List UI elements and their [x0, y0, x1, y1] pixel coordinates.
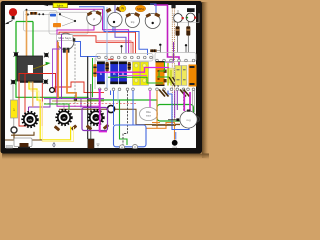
resistor orange vert	[93, 64, 96, 77]
wire green box right	[157, 105, 194, 122]
node t5	[60, 15, 76, 26]
wire arrow to lamp	[5, 21, 13, 25]
wire red mid top	[72, 36, 133, 54]
wire magenta blocks row	[96, 68, 169, 73]
wire blue to dot	[175, 132, 177, 140]
gauge G3	[125, 12, 140, 27]
pin marks	[120, 44, 187, 54]
svg-text:HN: HN	[28, 118, 32, 122]
lamp pilot small	[11, 127, 17, 133]
switch block yellow2	[140, 62, 148, 85]
gray stub plate	[6, 146, 13, 149]
frame re-draw bottom edge	[5, 149, 196, 154]
wire brown low1	[11, 132, 34, 136]
shadow right	[202, 2, 209, 158]
terminals row1	[98, 56, 195, 62]
wire blue mike	[75, 42, 99, 57]
wire red stub	[108, 58, 114, 60]
wire orange mike right	[67, 50, 76, 101]
wire pale yellow stairs	[31, 82, 74, 142]
svg-text:lights: lights	[57, 4, 64, 8]
switch block orange mid	[156, 61, 165, 86]
svg-text:Mike Says: Mike Says	[58, 36, 71, 40]
node ring mid	[107, 105, 114, 112]
svg-text:1: 1	[13, 108, 15, 112]
resistor inline mid	[150, 49, 160, 52]
wire magenta thick mid	[100, 89, 107, 132]
wire magenta gauge down	[57, 26, 100, 107]
wire green blocks	[108, 77, 163, 83]
wire pale blue tall	[106, 7, 108, 89]
capacitor right B	[186, 22, 190, 53]
wire orange mike left	[57, 42, 59, 99]
wire orange under box	[32, 82, 34, 108]
wire olive mid	[52, 100, 104, 102]
node ring left	[50, 88, 55, 93]
wire purple right v1	[174, 91, 176, 119]
wire green main low	[16, 82, 157, 105]
switch block blue2	[110, 62, 118, 85]
lamp small B	[186, 8, 196, 22]
yellow label LT	[53, 3, 68, 8]
desk background	[0, 0, 211, 162]
lamp small A	[174, 10, 184, 22]
wire black tall	[87, 57, 89, 140]
mike says dial	[57, 33, 76, 53]
wire green left loop	[16, 22, 33, 83]
wire green under blocks	[120, 100, 128, 145]
wire gray reg	[193, 91, 195, 113]
junction X3	[11, 80, 16, 85]
node top of orange	[26, 9, 28, 11]
wire blue under blocks	[111, 91, 134, 126]
node t2	[38, 13, 40, 15]
switch block yellow3	[175, 66, 181, 86]
wire magenta block drop	[141, 68, 143, 81]
wire yellow stairs	[29, 82, 71, 140]
mike says ellipse	[140, 107, 158, 120]
wire purple mike	[53, 49, 61, 87]
svg-text:MPH: MPH	[137, 7, 144, 11]
terminal B+	[168, 118, 179, 121]
purple horn link	[28, 107, 30, 111]
wire orange into box	[26, 10, 28, 56]
wire dark tall2	[90, 84, 92, 139]
fuse holder bottom	[88, 139, 100, 150]
switch block yellow4	[182, 66, 187, 86]
connector box A outline	[24, 11, 58, 32]
connector strip left	[96, 54, 153, 62]
wire red top long	[59, 32, 136, 53]
condenser drop	[53, 143, 55, 147]
fuse F1	[11, 84, 18, 127]
wire brown low2	[5, 133, 42, 140]
junction X4	[43, 79, 48, 84]
regulator box (dark)	[17, 56, 43, 81]
switch block yellow small	[169, 68, 175, 83]
wire purple left net	[29, 34, 105, 108]
ground dot right	[172, 140, 178, 149]
diagonal contacts B	[159, 90, 190, 97]
resistor R1	[30, 12, 37, 15]
wire purple right drop	[161, 42, 174, 66]
shadow bottom	[2, 154, 209, 161]
blue box bottom	[114, 125, 147, 147]
wire red dashed mid	[44, 103, 136, 105]
junction box bottom left	[14, 138, 32, 148]
twisted pair source	[171, 5, 175, 8]
switch block blue3	[119, 62, 127, 85]
diagonal contacts A	[169, 77, 179, 87]
wire gray bus in box A	[25, 14, 50, 16]
switch block orange right	[189, 65, 197, 87]
wire magenta over bulb	[99, 89, 101, 132]
badge W yellow	[119, 5, 126, 12]
node t4	[59, 13, 61, 15]
wire magenta to dial	[149, 91, 151, 109]
battery terminal c1	[120, 145, 125, 150]
wire gray dashed mid	[74, 44, 76, 107]
svg-text:trip: trip	[131, 20, 135, 24]
wire magenta right tall	[154, 5, 179, 66]
wire violet tall	[115, 5, 126, 54]
wire orange right net	[146, 91, 175, 140]
gauge G1	[87, 10, 102, 25]
resistor brown v2	[128, 62, 131, 70]
node top-left arrow	[44, 4, 54, 6]
lamp red pilot	[9, 8, 17, 19]
connector box B outline	[49, 12, 88, 34]
switch block yellow1	[133, 62, 140, 85]
wire dashed gray right	[183, 91, 185, 111]
photo black frame	[1, 1, 203, 154]
terminals row2	[98, 88, 194, 91]
wire magenta label run	[59, 8, 129, 54]
wire ltblue under blocks	[117, 91, 119, 104]
wire twisted pair	[172, 8, 180, 124]
wire pink mid	[96, 41, 131, 54]
bulb left	[54, 103, 78, 131]
horn	[22, 112, 37, 127]
capacitor C1	[53, 23, 61, 27]
wire dark under blocks	[123, 91, 128, 146]
svg-text:pf: pf	[93, 17, 95, 21]
capacitor right A	[176, 22, 180, 52]
wire gray vert	[94, 58, 96, 89]
purple box around bulb	[82, 108, 108, 131]
green arrow	[46, 62, 51, 65]
badge MPH orange	[135, 5, 145, 12]
connector strip right	[155, 53, 196, 62]
wire brown ring run	[59, 109, 180, 124]
white paper	[5, 5, 196, 148]
wire red staircase	[55, 82, 104, 93]
wire yellowgreen v1	[167, 63, 169, 86]
svg-text:says: says	[146, 115, 152, 118]
node t3	[42, 13, 44, 15]
resistor brown v1	[105, 62, 108, 71]
contact squares right of orange	[164, 70, 167, 83]
wire brown right low	[152, 124, 176, 126]
gauge G4	[145, 12, 160, 28]
wire green to bulb	[44, 104, 69, 110]
junction X2	[44, 53, 49, 58]
svg-text:reg: reg	[186, 118, 190, 122]
diode D1	[50, 14, 56, 17]
regulator circle	[180, 110, 200, 129]
bar under box	[20, 81, 43, 83]
wire green right steps	[157, 62, 169, 78]
wire green vert mid	[92, 58, 94, 97]
wire blue right net	[168, 91, 189, 130]
battery terminal c2	[133, 145, 138, 150]
box around small lamps	[173, 13, 199, 22]
gauge G2	[106, 7, 123, 27]
node t1	[27, 13, 29, 15]
wire blue top	[79, 4, 156, 55]
wire olive to arrow	[33, 64, 48, 69]
wire yellowgreen v2	[170, 70, 172, 86]
switch block blue1	[97, 62, 105, 85]
terminal square	[74, 98, 77, 101]
wire pink blocks row	[118, 75, 147, 77]
wire purple right v2	[176, 91, 178, 111]
wire magenta reg pair	[184, 92, 190, 111]
wire red net left	[19, 74, 56, 127]
junction X1	[14, 52, 19, 57]
bulb right	[86, 110, 110, 131]
